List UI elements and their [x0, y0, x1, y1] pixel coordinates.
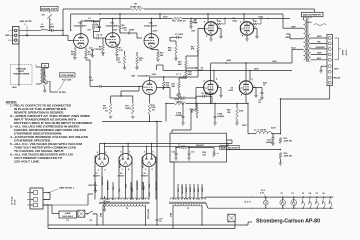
svg-text:GRN/YEL: GRN/YEL: [137, 180, 139, 190]
wire V1B col down: [102, 53, 104, 56]
wire C6 feed: [90, 85, 95, 87]
svg-text:5R4/GY: 5R4/GY: [93, 174, 101, 177]
wire T2 pri left: [102, 205, 104, 225]
wire OPT tap GRN: [296, 27, 304, 29]
wire T1 leads: [36, 66, 41, 68]
svg-text:GND: GND: [5, 35, 10, 37]
svg-text:GRN: GRN: [12, 87, 17, 89]
optional transformer box: [11, 65, 33, 85]
svg-text:3.--ALL VALUES ARE EXPRESSED I: 3.--ALL VALUES ARE EXPRESSED IN MICRO-: [10, 124, 80, 128]
wire V2A plate: [150, 18, 152, 33]
speaker bracket: [335, 38, 339, 60]
svg-text:1M: 1M: [71, 54, 74, 56]
svg-text:1MEG: 1MEG: [125, 108, 131, 110]
wire V6 cathode: [245, 94, 247, 103]
wire switch down: [49, 19, 51, 31]
wire 620 rail top: [279, 99, 281, 134]
label BLK-WHT: [302, 12, 324, 16]
bus AC bottom: [48, 228, 235, 230]
potentiometer R3: [44, 75, 47, 88]
wire input lower: [19, 34, 63, 36]
wire OPT tap BLU: [296, 48, 304, 50]
terminal strip TS1: [327, 35, 333, 86]
label BIAS ADJUST: [220, 145, 239, 149]
wire V1A plate: [80, 21, 82, 34]
tube V6: [239, 81, 252, 94]
svg-text:BIAS ADJUST: BIAS ADJUST: [221, 147, 240, 150]
wire HV to box: [227, 139, 233, 141]
wire V2B out lower: [157, 87, 164, 89]
transformer T4 secondary: [309, 34, 311, 62]
svg-text:82K: 82K: [171, 86, 175, 88]
svg-text:6.--ALL VOLTAGES MEASURED WITH: 6.--ALL VOLTAGES MEASURED WITH 125: [10, 152, 74, 156]
svg-text:RED: RED: [149, 183, 151, 188]
resistor R17 grid V3: [197, 44, 199, 52]
svg-text:+40/450: +40/450: [217, 115, 225, 118]
capacitor C10C: [272, 134, 274, 138]
svg-text:1 WATT: 1 WATT: [176, 100, 184, 103]
svg-text:GND: GND: [334, 68, 339, 70]
transformer T2 core: [99, 201, 150, 203]
svg-text:SPKR: SPKR: [343, 49, 345, 55]
wire S1 out: [94, 213, 98, 215]
wire sec BLK: [311, 59, 327, 61]
transformer T3 primary: [173, 204, 202, 206]
choke L2: [256, 131, 272, 133]
capacitor C8b bus: [190, 18, 192, 21]
svg-text:BLK: BLK: [317, 58, 322, 60]
wire L1C2 junction: [57, 29, 63, 31]
svg-text:RECT/FIL: RECT/FIL: [119, 158, 121, 168]
wire grid leak: [111, 95, 133, 97]
svg-text:440V: 440V: [227, 59, 232, 62]
tube V2A: [144, 34, 159, 49]
svg-text:RECT/FIL: RECT/FIL: [89, 185, 99, 187]
svg-text:5%: 5%: [118, 62, 121, 64]
svg-text:WHT: WHT: [317, 36, 322, 38]
svg-text:.02MF: .02MF: [129, 30, 135, 32]
capacitor C9: [202, 95, 204, 98]
svg-text:1.--RELAY CONTACTS TO BE CONNE: 1.--RELAY CONTACTS TO BE CONNECTED: [10, 103, 71, 107]
resistor R27 fil: [103, 199, 105, 206]
capacitor C10A: [182, 104, 184, 117]
svg-text:325V: 325V: [163, 16, 168, 18]
wire bias out: [190, 110, 192, 130]
svg-text:RED/YEL: RED/YEL: [182, 185, 184, 194]
svg-text:V2B: V2B: [131, 75, 135, 77]
jumper X see-note-2: [26, 34, 28, 36]
wire vol wiper: [50, 91, 58, 93]
svg-text:+40/450: +40/450: [175, 114, 183, 117]
wire AC neutral: [47, 205, 49, 225]
capacitor C3 bypass: [94, 21, 100, 23]
wire rect fil leads: [94, 156, 96, 200]
wire AC hot: [43, 204, 52, 206]
svg-text:BLK: BLK: [99, 213, 101, 218]
bus AC lower: [97, 224, 248, 226]
capacitor C10B: [214, 104, 216, 117]
svg-text:600K 5%: 600K 5%: [178, 20, 186, 22]
transformer T1 coils: [41, 67, 42, 84]
heater V10 fil: [329, 197, 332, 208]
pilot lamp PL1: [263, 200, 268, 205]
resistor R22: [174, 102, 186, 105]
bus 340V mid: [163, 70, 292, 72]
svg-text:WHT/COM: WHT/COM: [147, 209, 149, 219]
terminal lugs: [328, 37, 331, 40]
wire T3 sec stubs: [173, 162, 175, 200]
input terminal strip J1: [13, 27, 20, 45]
capacitor C6 grid: [95, 85, 99, 87]
transformer T2 secondary: [100, 198, 148, 200]
svg-text:20W: 20W: [239, 111, 243, 113]
resistor R2: [85, 50, 88, 58]
wire gnd lug: [321, 65, 327, 67]
wire rect cath V9: [148, 167, 150, 200]
svg-text:4.--CAPACITOR WORKING VOLTAGE: 4.--CAPACITOR WORKING VOLTAGE 450 UNLESS: [10, 135, 88, 139]
capacitor C1: [89, 47, 93, 49]
svg-text:5%: 5%: [152, 110, 155, 112]
wire AC mid riser: [43, 198, 50, 200]
filament rail top: [251, 196, 333, 198]
ground rect filament: [94, 190, 98, 192]
svg-text:6.3V: 6.3V: [149, 192, 151, 197]
wire mid supply: [165, 104, 167, 122]
ground R1: [73, 57, 77, 59]
ground R2: [84, 57, 88, 59]
switch S2 bass cut: [49, 11, 51, 13]
resistor R18b screen V5: [252, 23, 258, 25]
resistor R23: [196, 108, 199, 115]
label volume: [60, 73, 76, 77]
resistor R18 screen V3: [216, 23, 222, 25]
svg-text:6.3V: 6.3V: [260, 193, 265, 195]
svg-text:3-10H 90: 3-10H 90: [258, 130, 267, 132]
svg-text:Stromberg-Carlson AP-80: Stromberg-Carlson AP-80: [256, 218, 320, 224]
svg-text:IN PLACE OF THIS JUMPER WHEN: IN PLACE OF THIS JUMPER WHEN: [14, 107, 66, 111]
AC terminal arrows: [32, 192, 34, 194]
svg-text:470K: 470K: [97, 48, 102, 51]
wire HV feed 1: [99, 143, 232, 145]
svg-text:-50V: -50V: [191, 30, 196, 32]
ground bus mid: [102, 120, 162, 122]
svg-text:RELAY: RELAY: [334, 77, 341, 80]
svg-text:TUBE VOLT METER WITH COMMON LE: TUBE VOLT METER WITH COMMON LEAD: [14, 145, 76, 149]
svg-text:47K: 47K: [191, 48, 195, 51]
svg-text:RED: RED: [126, 183, 128, 188]
bus 325V: [100, 17, 172, 19]
wire V5 cathode gnd: [246, 35, 248, 38]
wire OPT tap RED: [290, 38, 304, 40]
junction R13 R14: [280, 149, 281, 150]
capacitor C5: [120, 32, 128, 34]
wire V6 screen: [249, 71, 251, 81]
wire V4 grid: [191, 109, 196, 111]
svg-text:V1A: V1A: [78, 22, 82, 25]
transformer T3 core: [169, 201, 206, 203]
wire V5 plate: [243, 14, 245, 22]
resistor R20: [185, 70, 188, 78]
tube V4: [204, 81, 218, 95]
wire T3 pri right: [201, 205, 203, 225]
wire sec GRN: [311, 53, 327, 55]
svg-text:INPUT TRANSFORMER AS SHOWN WIT: INPUT TRANSFORMER AS SHOWN WITH: [14, 117, 76, 121]
svg-text:6.3 V: 6.3 V: [245, 202, 252, 204]
resistor R6 plate V1B: [119, 14, 121, 24]
bus drop 160: [159, 14, 161, 18]
wire bus to OPT GRN: [282, 14, 284, 28]
resistor R5: [102, 44, 105, 52]
svg-text:595V: 595V: [242, 125, 247, 127]
tube V1A: [74, 34, 89, 49]
wire stub C11: [254, 87, 262, 89]
svg-text:+40/450: +40/450: [266, 141, 274, 144]
svg-text:BLK: BLK: [198, 187, 200, 192]
resistor R11: [132, 103, 135, 115]
svg-text:100V: 100V: [113, 29, 118, 31]
svg-text:100K: 100K: [95, 27, 100, 29]
svg-text:GRN/YEL: GRN/YEL: [108, 180, 110, 190]
svg-text:RED/YEL: RED/YEL: [102, 176, 104, 185]
capacitor C2: [48, 29, 52, 31]
wire V3 screen dot: [224, 18, 225, 19]
tube V9: [142, 153, 155, 166]
wire sec YEL: [311, 42, 327, 44]
capacitor line C15: [156, 221, 158, 225]
wire V5 screen dot: [260, 18, 261, 19]
wire V6 plate: [245, 63, 247, 81]
svg-text:5%: 5%: [139, 60, 142, 62]
wire rect cath V7: [101, 167, 103, 200]
svg-text:OTHERWISE INDICATED/SHOWN.: OTHERWISE INDICATED/SHOWN.: [14, 131, 62, 135]
tube V2B: [143, 81, 157, 95]
svg-text:5.--ALL D.C. VOLTAGES READ WIT: 5.--ALL D.C. VOLTAGES READ WITH VACUUM: [10, 142, 83, 146]
wire T2 sec stubs: [107, 180, 109, 200]
wire T3 pri left: [172, 205, 174, 228]
svg-text:220K: 220K: [122, 28, 127, 30]
wire feedback left: [63, 8, 131, 10]
svg-text:DOTTED LINES IF 600 OHM INPUT: DOTTED LINES IF 600 OHM INPUT IS DESIRED: [14, 121, 92, 125]
svg-text:C4 .02: C4 .02: [97, 33, 104, 36]
svg-text:4-8-16: 4-8-16: [345, 49, 348, 56]
svg-text:BASS CUT: BASS CUT: [41, 8, 57, 11]
switch box BASS CUT: [41, 6, 59, 11]
svg-text:117 V AC: 117 V AC: [11, 196, 14, 205]
svg-text:470K 5%: 470K 5%: [130, 5, 141, 8]
svg-text:2.--OPEN CIRCUIT AT THIS POINT: 2.--OPEN CIRCUIT AT THIS POINT AND WIRE: [10, 114, 90, 118]
relay contact box: [42, 64, 49, 68]
resistor R24: [180, 146, 188, 149]
wire input gnd down: [18, 40, 20, 67]
wire T3 fil out: [204, 197, 206, 199]
svg-text:GRN: GRN: [202, 187, 204, 192]
wire rect cath V8: [125, 167, 127, 200]
svg-text:ORN/WHT: ORN/WHT: [316, 47, 326, 49]
resistor R14: [279, 152, 282, 158]
svg-text:205V: 205V: [153, 31, 158, 33]
chassis box: [228, 214, 235, 222]
svg-text:V2A: V2A: [149, 22, 153, 25]
svg-text:BRN: BRN: [190, 187, 192, 192]
resistor R14b mid: [136, 56, 138, 65]
resistor R8: [131, 8, 144, 11]
wire V2B out upper: [157, 76, 184, 78]
tube V8: [119, 153, 132, 166]
svg-text:VOLUME: VOLUME: [61, 75, 75, 77]
svg-text:REMOTE OPERATION IS DESIRED.: REMOTE OPERATION IS DESIRED.: [14, 110, 64, 114]
wire V3 plate: [207, 14, 209, 22]
resistor R21: [178, 81, 181, 89]
svg-text:RECT/FIL: RECT/FIL: [142, 158, 144, 168]
resistor R18c col: [175, 45, 177, 55]
tube V7: [95, 153, 108, 166]
resistor R4: [92, 23, 95, 30]
svg-text:FARADS, MICROHENRIES AND OHMS: FARADS, MICROHENRIES AND OHMS UNLESS: [14, 128, 86, 132]
svg-text:TRANSFORMER: TRANSFORMER: [13, 72, 30, 75]
wire to V1A grid: [63, 34, 68, 36]
svg-text:BLU: BLU: [291, 48, 296, 50]
wire V4 screen: [213, 71, 215, 81]
bus cathode lower: [200, 103, 246, 105]
svg-text:3 AMP: 3 AMP: [65, 212, 72, 215]
capacitor C12: [175, 150, 177, 153]
svg-text:BLU: BLU: [308, 22, 313, 24]
wire input upper: [19, 29, 41, 31]
svg-text:RED: RED: [285, 37, 290, 39]
bus 600V top: [71, 13, 283, 15]
tube V5: [240, 22, 253, 35]
svg-text:BLU: BLU: [194, 187, 196, 192]
capacitor C13: [188, 150, 190, 153]
resistor R13b bus: [172, 17, 182, 19]
svg-text:VOLT PRIMARY CONNECTED TO: VOLT PRIMARY CONNECTED TO: [14, 156, 62, 160]
filament rail bottom: [251, 207, 333, 209]
ground R14: [279, 162, 283, 164]
svg-text:C9 .1MF 600V: C9 .1MF 600V: [201, 93, 214, 95]
transformer T3 secondary: [170, 198, 205, 200]
wire V3 cathode gnd: [210, 35, 212, 38]
inductor L1: [41, 29, 47, 30]
svg-text:220K 2W: 220K 2W: [284, 141, 292, 143]
ground TS1: [319, 70, 323, 72]
svg-text:.6MH: .6MH: [40, 27, 45, 29]
wire V2B cathode: [148, 94, 150, 96]
resistor R16 plate V2B: [149, 77, 151, 81]
svg-text:SEE NOTE 1: SEE NOTE 1: [59, 187, 75, 189]
svg-text:10K: 10K: [202, 154, 206, 156]
wire chassis stub: [247, 222, 249, 225]
wire sec ORN: [311, 48, 327, 50]
switch S1: [85, 213, 88, 215]
svg-text:C7 .22UF: C7 .22UF: [175, 34, 184, 36]
wire bus drop left: [99, 18, 101, 21]
wire HV feed 3: [127, 144, 129, 154]
wire T2 pri right: [145, 205, 147, 225]
svg-text:RED: RED: [143, 185, 145, 190]
potentiometer R25: [213, 150, 216, 157]
resistor R13: [279, 137, 282, 143]
svg-text:ATTEN: ATTEN: [59, 91, 66, 94]
svg-text:125 VOLT LINE.: 125 VOLT LINE.: [14, 159, 40, 163]
svg-text:R24 47K: R24 47K: [196, 144, 204, 147]
fuse F1: [59, 211, 77, 218]
capacitor C4a: [94, 37, 97, 39]
svg-text:TO CHASSIS. NO SIGNAL INPUT.: TO CHASSIS. NO SIGNAL INPUT.: [14, 149, 64, 153]
svg-text:BLK: BLK: [273, 61, 278, 63]
svg-text:SEE NOTE: SEE NOTE: [20, 21, 33, 23]
AC terminal strip: [30, 188, 43, 209]
resistor R7: [116, 46, 119, 54]
svg-text:5%: 5%: [105, 110, 108, 112]
resistor R9: [109, 103, 112, 115]
svg-text:BLK/WHT: BLK/WHT: [303, 15, 323, 17]
svg-text:220K 2W: 220K 2W: [284, 155, 292, 157]
resistor R26: [236, 108, 239, 119]
wire HV feed 2: [105, 145, 228, 147]
svg-text:GRN: GRN: [186, 187, 188, 192]
resistor R12 cath: [148, 103, 151, 115]
resistor R11b mid: [123, 55, 125, 65]
svg-text:68K: 68K: [178, 64, 182, 66]
resistor R10 cath V2A: [150, 48, 152, 49]
resistor R1: [74, 50, 77, 58]
svg-text:2.7K: 2.7K: [119, 50, 124, 52]
svg-text:BLK: BLK: [169, 213, 171, 218]
wire V4 cathode: [210, 95, 212, 104]
wire relay down: [329, 86, 331, 100]
resistor R19: [185, 60, 188, 68]
wire L2 up: [247, 104, 249, 128]
svg-text:68K: 68K: [188, 74, 192, 76]
tube V3: [204, 22, 217, 35]
svg-text:SLO-BLO: SLO-BLO: [62, 216, 74, 218]
svg-text:340V: 340V: [254, 68, 259, 71]
svg-text:OTHERWISE SPECIFIED.: OTHERWISE SPECIFIED.: [14, 138, 51, 142]
svg-text:GRN: GRN: [317, 53, 322, 55]
wire V1B plate: [112, 18, 114, 32]
bias supply box: [170, 133, 227, 162]
svg-text:250K: 250K: [67, 80, 72, 82]
wire AC jumper: [43, 192, 50, 194]
wire feedback right: [144, 8, 315, 10]
svg-text:120V: 120V: [152, 74, 157, 76]
svg-text:60 CY: 60 CY: [15, 199, 17, 205]
transformer T2 primary: [103, 204, 146, 206]
transformer T4 core: [305, 18, 307, 62]
tube V1B: [105, 33, 120, 48]
wire C15 riser: [156, 121, 158, 216]
svg-text:56K: 56K: [168, 50, 172, 52]
svg-text:620V: 620V: [271, 128, 276, 130]
transformer T4 primary: [304, 20, 306, 60]
wire V4 plate: [210, 63, 212, 81]
interlock box: [78, 210, 85, 217]
svg-text:GRN: GRN: [291, 26, 296, 28]
wire sec WHT: [311, 37, 327, 39]
